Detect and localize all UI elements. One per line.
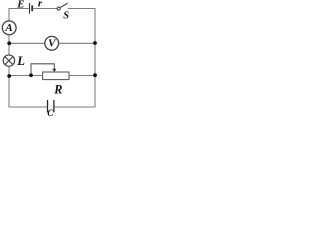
wire node to lamp xyxy=(8,43,10,55)
svg-text:L: L xyxy=(16,54,25,68)
wire lamp to lower-left node xyxy=(8,66,10,75)
battery E xyxy=(30,3,33,14)
capacitor C plates xyxy=(48,100,54,112)
lamp L circle with cross xyxy=(3,55,14,66)
wire right side: rheostat node to bottom-right corner xyxy=(54,75,95,107)
svg-text:r: r xyxy=(38,0,43,10)
svg-text:V: V xyxy=(48,37,57,49)
node dot right-voltmeter xyxy=(93,41,97,45)
svg-text:R: R xyxy=(53,82,62,96)
wire rheostat to right node xyxy=(69,75,95,77)
rheostat slider tap wire xyxy=(31,64,54,76)
wire lower branch: node to rheostat xyxy=(9,75,43,77)
svg-text:C: C xyxy=(47,108,54,118)
wire bottom-left: capacitor to left corner up xyxy=(9,76,47,107)
node dot slider-tap xyxy=(29,73,33,77)
wire top-left segment xyxy=(9,9,29,21)
switch S xyxy=(57,3,67,10)
rheostat slider arrowhead xyxy=(52,69,56,72)
voltmeter V circle xyxy=(45,36,59,50)
node dot right-rheostat xyxy=(93,73,97,77)
ammeter A circle xyxy=(2,21,16,35)
wire ammeter to node xyxy=(8,35,10,44)
node dot left-voltmeter xyxy=(7,41,11,45)
svg-text:A: A xyxy=(4,22,12,34)
wire battery to switch xyxy=(33,8,57,10)
node dot left-lamp xyxy=(7,74,11,78)
wire right side: voltmeter node to rheostat node xyxy=(94,43,96,75)
wire switch to top-right corner down to voltmeter node xyxy=(68,9,95,44)
rheostat R body xyxy=(43,72,69,80)
svg-text:E: E xyxy=(16,0,24,11)
wire voltmeter to right node xyxy=(59,42,95,44)
svg-text:S: S xyxy=(63,11,69,22)
wire node to voltmeter xyxy=(9,42,45,44)
